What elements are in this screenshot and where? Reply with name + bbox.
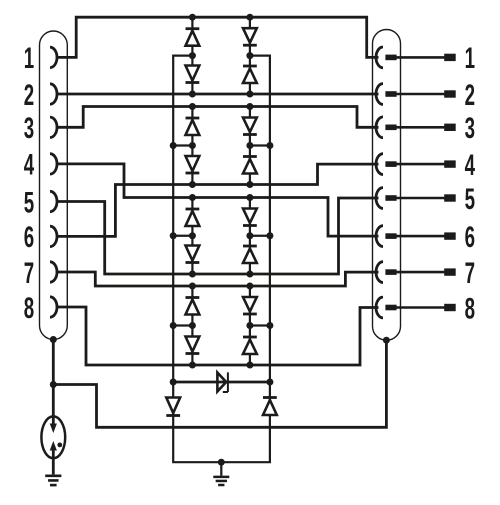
svg-text:7: 7 (24, 257, 34, 290)
svg-text:8: 8 (24, 292, 34, 325)
svg-text:6: 6 (24, 221, 34, 254)
svg-text:3: 3 (465, 112, 475, 145)
svg-text:6: 6 (465, 221, 475, 254)
svg-text:8: 8 (465, 292, 475, 325)
svg-text:1: 1 (24, 42, 34, 75)
svg-text:5: 5 (24, 186, 34, 219)
svg-text:2: 2 (465, 79, 475, 112)
svg-text:4: 4 (465, 149, 476, 182)
svg-text:4: 4 (24, 149, 35, 182)
svg-text:3: 3 (24, 112, 34, 145)
svg-text:7: 7 (465, 257, 475, 290)
svg-text:2: 2 (24, 79, 34, 112)
svg-text:1: 1 (465, 42, 475, 75)
svg-text:5: 5 (465, 183, 475, 216)
